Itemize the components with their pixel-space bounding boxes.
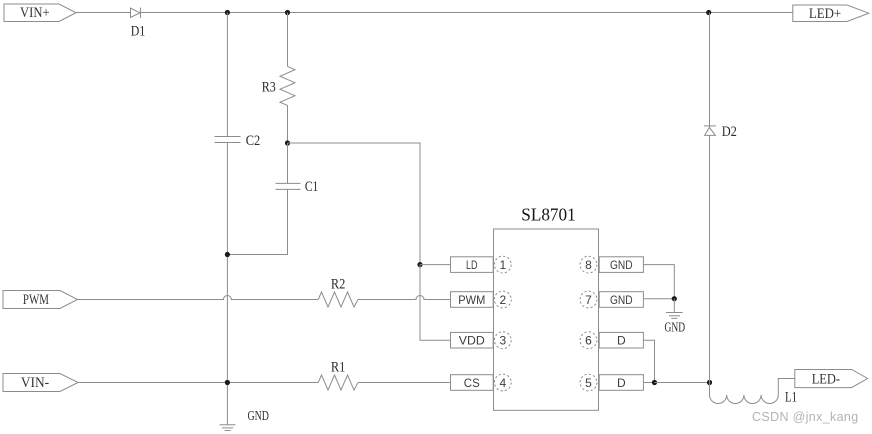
connector LED+	[793, 5, 869, 22]
svg-text:2: 2	[499, 293, 506, 307]
pin number 4	[494, 374, 511, 391]
svg-text:CS: CS	[464, 376, 480, 390]
wire PWM to R2 (with hop over left rail)	[78, 296, 319, 300]
op-amp U1 SL8701 body	[494, 229, 599, 410]
wire node to VDD rail	[288, 143, 421, 265]
wire VDD rail lower	[420, 265, 451, 341]
wire GND node down	[673, 299, 675, 313]
pin box D6	[599, 332, 643, 348]
svg-text:L1: L1	[785, 390, 797, 406]
junction node top-left rail	[225, 10, 230, 15]
connector LED-	[795, 370, 868, 388]
svg-text:GND: GND	[247, 409, 269, 424]
pin box GND7	[599, 292, 643, 308]
svg-text:1: 1	[499, 258, 506, 272]
junction node C1/left rail	[225, 252, 230, 257]
pin number 5	[580, 374, 597, 391]
connector VIN+	[4, 4, 76, 22]
svg-text:GND: GND	[610, 293, 633, 307]
diode D2	[704, 126, 716, 135]
junction node top right rail	[706, 10, 711, 15]
diode D1	[131, 8, 141, 19]
pin number 3	[494, 332, 511, 349]
resistor R2	[318, 292, 358, 307]
wire left rail lower (C2 bottom to GND)	[226, 143, 228, 425]
svg-text:D1: D1	[131, 24, 146, 40]
svg-text:PWM: PWM	[458, 293, 485, 307]
svg-text:R1: R1	[331, 359, 346, 375]
junction node LD branch	[417, 262, 422, 267]
svg-text:GND: GND	[610, 258, 633, 272]
svg-text:SL8701: SL8701	[521, 205, 576, 225]
svg-text:GND: GND	[665, 321, 686, 336]
wire pin5 to D node	[643, 382, 654, 384]
wire VIN- to R1	[78, 382, 318, 384]
svg-text:6: 6	[585, 334, 592, 348]
svg-text:R3: R3	[262, 80, 276, 96]
svg-text:4: 4	[499, 376, 506, 390]
svg-text:D2: D2	[722, 124, 737, 140]
wire R3 bottom to node	[287, 105, 289, 143]
pin box CS	[451, 375, 494, 391]
capacitor C1	[276, 183, 301, 189]
svg-text:CSDN @jnx_kang: CSDN @jnx_kang	[752, 410, 859, 424]
svg-text:LED+: LED+	[809, 6, 841, 22]
connector PWM	[3, 291, 78, 309]
inductor L1	[710, 379, 795, 404]
pin number 8	[580, 256, 597, 273]
svg-text:VIN-: VIN-	[21, 375, 49, 391]
wire C1 top	[287, 143, 289, 183]
capacitor C2	[215, 137, 241, 143]
svg-text:VDD: VDD	[459, 334, 485, 348]
svg-text:8: 8	[585, 258, 592, 272]
svg-text:D: D	[617, 334, 626, 348]
junction node D5/6	[652, 380, 657, 385]
pin box VDD	[451, 332, 494, 348]
svg-text:VIN+: VIN+	[20, 5, 50, 21]
wire pin7 to GND node	[643, 298, 674, 300]
wire right rail (LED+ to switch node)	[709, 13, 711, 383]
svg-text:3: 3	[499, 334, 506, 348]
resistor R1	[318, 375, 358, 390]
junction node VIN-/left rail	[225, 380, 230, 385]
pin box LD	[451, 257, 494, 273]
wire D node to L1 node	[655, 382, 710, 384]
connector VIN-	[3, 374, 78, 392]
svg-text:C2: C2	[246, 133, 261, 149]
svg-text:5: 5	[585, 376, 592, 390]
wire C1 bottom	[227, 189, 287, 254]
wire LD stub	[420, 264, 451, 266]
junction node D2/L1	[707, 380, 712, 385]
wire left rail upper (C2 top)	[226, 13, 228, 137]
pin number 6	[580, 332, 597, 349]
svg-text:R2: R2	[331, 276, 346, 292]
junction node R3/C1/VDD	[285, 140, 290, 145]
svg-text:LED-: LED-	[812, 372, 840, 388]
pin box D5	[599, 375, 643, 391]
wire R1 to CS pin	[358, 382, 451, 384]
pin box PWM	[451, 292, 494, 308]
ground GND (pin7)	[666, 313, 683, 319]
junction node top R3 rail	[285, 10, 290, 15]
ground GND (bottom left)	[220, 425, 236, 431]
resistor R3	[280, 66, 295, 105]
wire R2 to PWM pin (with hop over VDD rail)	[358, 296, 451, 300]
wire VIN+ net (top rail)	[76, 12, 793, 14]
pin number 2	[494, 291, 511, 308]
svg-text:PWM: PWM	[23, 292, 49, 308]
svg-text:7: 7	[585, 293, 592, 307]
wire R3 rail top	[287, 13, 289, 67]
junction node GND7/8	[672, 296, 677, 301]
svg-text:C1: C1	[305, 179, 319, 195]
pin number 7	[580, 291, 597, 308]
pin box GND8	[599, 257, 643, 273]
wire pin6 to D node	[643, 340, 654, 382]
svg-text:LD: LD	[466, 258, 478, 272]
wire pin8 to GND node	[643, 265, 674, 299]
svg-text:D: D	[617, 376, 626, 390]
pin number 1	[494, 256, 511, 273]
